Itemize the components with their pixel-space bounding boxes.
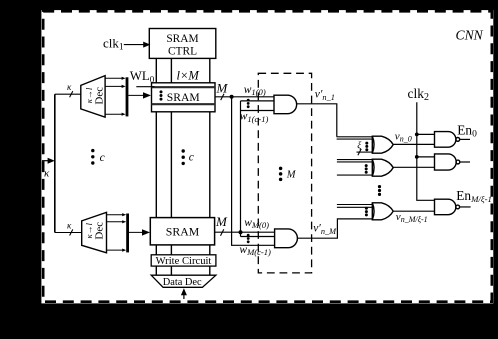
svg-text:SRAM: SRAM [166, 225, 200, 239]
decoder1 output bar [126, 77, 129, 116]
svg-text:Data Dec: Data Dec [163, 277, 202, 288]
dashed outer border [43, 11, 492, 301]
wire: clk2 to NAND2 [417, 156, 435, 158]
XOR1 input pair wires [337, 136, 373, 138]
Data Dec block [151, 275, 216, 287]
dots left c column [91, 149, 94, 152]
wire: branch to decoder 2 [55, 232, 82, 234]
XOR gate G3 body [372, 136, 393, 153]
AND gate G1 [274, 95, 297, 114]
decoder U3 output lines [107, 214, 125, 216]
SRAM bank 1 sandwich [152, 83, 216, 112]
junction dot node wM(0) [239, 230, 243, 234]
left kappa bus vertical [54, 94, 56, 232]
dots XOR2 inputs [365, 164, 368, 167]
wire clk1 to SRAM CTRL [124, 44, 146, 46]
XOR3 input pair wires [337, 204, 373, 206]
arrowhead kappa input [48, 158, 55, 164]
NAND gate G7 output [460, 161, 470, 163]
NAND gate G6 [435, 132, 456, 148]
dots XOR1 inputs [365, 142, 368, 145]
slash xi bus [358, 149, 361, 155]
wire: v_n_1 XOR2 out to NAND2 [393, 166, 435, 168]
AND gate G2 [275, 229, 298, 248]
decoder U2 rotated text [84, 87, 106, 105]
wire: decoder2 bar to SRAM2 [129, 231, 146, 233]
wire: v_n_M/xi-1 XOR3 out to NAND3 [393, 210, 435, 212]
XOR gate G3 face arc [372, 136, 374, 153]
dots M rows center [279, 167, 283, 171]
dots center c column [182, 149, 185, 152]
slash M bus 1 [221, 94, 224, 100]
decoder U2 output lines [105, 77, 123, 79]
XOR2 input pair wires [337, 159, 373, 161]
svg-text:l×M: l×M [177, 69, 200, 83]
figure white area [41, 10, 493, 303]
slash kappa dec2 [70, 229, 73, 235]
svg-text:κ: κ [67, 82, 72, 92]
slash kappa dec1 [70, 91, 73, 97]
clk2 line [417, 102, 435, 200]
XOR gate G5 face arc [372, 203, 374, 220]
dots SRAM1 label [160, 90, 163, 93]
decoder U2 trapezoid [81, 76, 105, 118]
arrowhead clk1 [143, 42, 150, 48]
svg-text:κ: κ [67, 221, 72, 231]
XOR1 bottom input stub [357, 151, 373, 153]
wire: SRAM1 output M bus to AND gate [215, 96, 274, 98]
SRAM bank 2 box [150, 218, 214, 245]
NAND gate G8 output [460, 206, 471, 208]
arrowheads decoder1 lines at bar [122, 77, 126, 80]
wire: clk2 to NAND1 [417, 133, 435, 135]
Write Circuit box [151, 255, 216, 266]
SRAM CTRL box U1 [149, 29, 216, 59]
svg-text:Dec: Dec [94, 87, 106, 105]
wire: vertical A w_M(c-1) [232, 97, 275, 246]
NAND gate G6 output [460, 138, 470, 140]
wire: WL0 pointer [136, 86, 154, 88]
wire: decoder1 bar to SRAM1 [128, 94, 146, 96]
svg-text:κ→l: κ→l [84, 222, 94, 238]
decoder U3 rotated text [84, 222, 106, 240]
svg-text:κ: κ [44, 167, 50, 179]
svg-text:SRAM: SRAM [166, 33, 198, 45]
arrowheads decoder2 lines at bar [122, 213, 126, 216]
XOR2 bottom input stub [337, 174, 373, 176]
decoder2 output bar [126, 214, 129, 253]
wire: v_n_0 XOR1 out to NAND1 [393, 143, 435, 145]
decoder U3 trapezoid [82, 212, 107, 252]
wire: v'_n_M to XOR3 [297, 219, 372, 238]
dots XOR3 inputs [365, 207, 368, 210]
svg-text:Write Circuit: Write Circuit [156, 256, 212, 267]
wire: AND1 middle input [241, 100, 275, 102]
dots AND2 inputs [247, 234, 250, 237]
svg-text:c: c [189, 151, 194, 163]
svg-text:M: M [216, 81, 229, 96]
column bit lines (3 vertical) [156, 58, 210, 275]
wire: AND1 bottom input w_1(c-1) [241, 110, 275, 112]
wire: v'_n_1 to XOR1 [297, 104, 337, 137]
slash M bus 2 [221, 229, 224, 235]
svg-text:CNN: CNN [456, 27, 484, 42]
svg-text:κ→l: κ→l [84, 87, 94, 103]
junction dot clk2/NAND2 [415, 155, 419, 159]
wire: AND2 middle input [241, 236, 275, 238]
svg-text:CTRL: CTRL [168, 46, 197, 58]
NAND gate G8 [435, 199, 456, 215]
wire: kappa input arrow [42, 160, 50, 162]
svg-text:SRAM: SRAM [167, 91, 200, 104]
ellipsis dots [91, 90, 381, 243]
dots AND1 inputs [247, 99, 250, 102]
wire: vertical B w_1(c-1) riser [240, 101, 242, 237]
NAND gate G7 [435, 154, 457, 170]
dashed inner box [258, 73, 311, 273]
svg-text:M: M [215, 214, 228, 229]
wire: input arrow to Data Dec [183, 294, 185, 299]
wire: branch to decoder 1 [55, 93, 81, 95]
XOR gate G5 body [372, 203, 393, 220]
junction dot node w1(0) [230, 95, 234, 99]
arrowhead dec1 to SRAM1 [143, 92, 151, 98]
arrowhead data dec input [181, 288, 187, 295]
slashes on buses [70, 91, 362, 236]
arrowhead dec2 to SRAM2 [142, 229, 150, 235]
svg-text:M: M [286, 170, 297, 181]
XOR gate G4 face arc [372, 159, 374, 176]
wire: SRAM2 output M bus w_M(0) [215, 231, 275, 233]
dots between XOR2 and XOR3 [378, 185, 381, 188]
XOR gate G4 body [372, 159, 393, 176]
svg-text:c: c [100, 152, 105, 164]
svg-text:Dec: Dec [94, 222, 106, 240]
junction dot clk2/NAND1 [415, 133, 419, 137]
